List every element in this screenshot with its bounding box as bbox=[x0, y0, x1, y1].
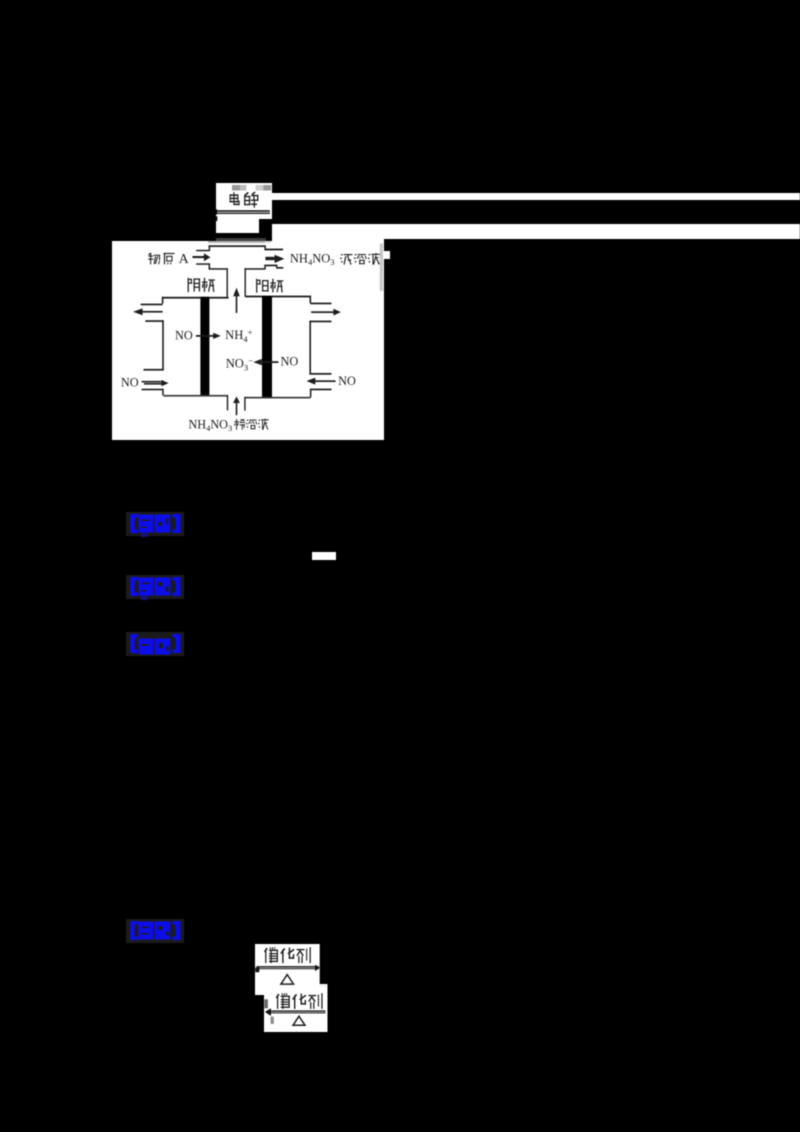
left wall below tube bbox=[209, 263, 211, 269]
label cathode yin-ji bbox=[188, 278, 200, 292]
svg-text:NO: NO bbox=[281, 354, 299, 368]
right wall upper bracket bbox=[309, 321, 331, 323]
right out-arrow bbox=[311, 311, 334, 313]
stack2 left arrowhead bbox=[265, 1008, 271, 1016]
stack2 delta bbox=[293, 1016, 305, 1025]
right tube lower edge joint bbox=[276, 265, 277, 268]
arrow to NH4NO3 concentrated solution bbox=[265, 257, 275, 260]
white notch right of diagram bbox=[383, 251, 390, 260]
svg-text:NO: NO bbox=[338, 374, 356, 388]
[fenxi] label backing patch bbox=[126, 632, 184, 656]
dianjie condition box bbox=[216, 183, 272, 233]
arrow NO to NO3- bbox=[262, 361, 279, 363]
left inlet tube lower edge bbox=[196, 263, 209, 265]
[zhuanti] label backing patch bbox=[126, 575, 184, 599]
right out-pipe upper line bbox=[310, 303, 331, 305]
left outer wall upper stub bbox=[162, 297, 164, 304]
stack1 background bbox=[255, 944, 320, 987]
arrow NO to NH4+ bbox=[196, 335, 214, 337]
neck left wall bbox=[209, 245, 211, 251]
vessel bottom edge left bbox=[163, 395, 227, 397]
left inlet tube upper edge bbox=[196, 250, 209, 252]
stack1 double line bbox=[256, 966, 319, 967]
right outlet tube upper edge bbox=[264, 249, 283, 251]
anode shelf line bbox=[245, 296, 310, 298]
left channel wall bbox=[227, 268, 228, 297]
left lower wall stub bbox=[162, 389, 164, 396]
reaction double line upper bbox=[216, 211, 269, 213]
cuihuaji stack 2 bbox=[264, 984, 328, 1032]
black notch over dianjie box lower-right bbox=[259, 219, 272, 233]
right NO inlet arrow bbox=[315, 380, 336, 382]
neck right wall bbox=[264, 245, 266, 249]
left NO inlet arrow bbox=[144, 383, 162, 385]
diagram right edge gray band bbox=[380, 244, 383, 292]
cell neck top line bbox=[209, 245, 265, 247]
cathode electrode bar bbox=[200, 297, 209, 396]
stack1 right arrowhead bbox=[315, 964, 320, 971]
right wall lower bracket bbox=[309, 373, 331, 375]
stack2 background bbox=[264, 985, 328, 1031]
svg-text:NO: NO bbox=[121, 376, 139, 390]
left NO inlet pipe lower bbox=[142, 389, 164, 391]
right outer wall upper stub bbox=[310, 296, 312, 303]
[kaodian] label backing patch bbox=[126, 512, 184, 536]
vessel bottom edge right bbox=[245, 397, 311, 399]
dark gray band below dianjie bbox=[216, 238, 266, 241]
svg-text:A: A bbox=[179, 252, 190, 267]
left wall lower bracket bbox=[144, 369, 164, 371]
right outlet tube lower edge bbox=[265, 265, 276, 267]
stack2 gray smudge lower bbox=[271, 1016, 274, 1023]
left wall upper bracket bbox=[145, 320, 163, 322]
left funnel shoulder bbox=[209, 268, 228, 270]
[fenxi] label blue text bbox=[128, 634, 183, 657]
label anode yang-ji bbox=[256, 279, 268, 293]
center up arrow bbox=[236, 295, 238, 314]
stack2 cuihuaji characters bbox=[276, 993, 290, 1009]
dianjie box background bbox=[216, 183, 272, 233]
bottom inlet right wall bbox=[244, 397, 245, 411]
[jieda] label blue text bbox=[128, 921, 183, 944]
light gray strip below dianjie bbox=[208, 241, 265, 243]
svg-text:NH4NO3: NH4NO3 bbox=[189, 418, 233, 434]
label wuzhiA bbox=[148, 253, 160, 265]
label NH4NO3 concentrated solution bbox=[290, 251, 335, 267]
right outer wall bbox=[309, 321, 311, 375]
left out-arrow bbox=[142, 311, 163, 313]
right funnel shoulder bbox=[244, 268, 265, 270]
white dash bbox=[312, 552, 336, 560]
electrolysis cell diagram bbox=[112, 241, 384, 440]
left out-pipe upper line bbox=[141, 304, 163, 306]
stack1 cuihuaji characters bbox=[264, 947, 278, 963]
white strip 1 bbox=[272, 193, 800, 200]
arrow wuzhiA into cell bbox=[193, 256, 205, 258]
left NO inlet pipe upper bbox=[142, 381, 162, 383]
stack2 gray smudge upper bbox=[264, 999, 268, 1008]
left outer wall bbox=[162, 320, 164, 370]
right lower wall stub bbox=[310, 389, 312, 398]
stack1 delta bbox=[281, 974, 294, 984]
gray artifact blocks top bbox=[232, 185, 240, 191]
svg-text:NH4NO3: NH4NO3 bbox=[290, 251, 335, 267]
right wall below tube bbox=[264, 265, 266, 270]
[jieda] label backing patch bbox=[126, 919, 184, 943]
right NO inlet pipe lower bbox=[310, 389, 331, 391]
white strip 2 bbox=[272, 224, 800, 239]
stack2 double line bbox=[267, 1010, 326, 1011]
cuihuaji stack 1 bbox=[255, 944, 320, 995]
left edge tick lower bbox=[216, 217, 217, 222]
right channel wall bbox=[245, 268, 246, 297]
diagram background bbox=[112, 241, 384, 440]
[zhuanti] label blue text bbox=[128, 577, 183, 600]
[kaodian] label blue text bbox=[128, 514, 183, 537]
cathode shelf line bbox=[162, 297, 229, 299]
white filler strip2 to diagram bbox=[272, 239, 384, 242]
reaction double line lower bbox=[216, 213, 270, 214]
anode electrode bar bbox=[262, 296, 272, 397]
bottom up arrow bbox=[236, 402, 238, 416]
stack1 left tail mark bbox=[255, 967, 259, 972]
left edge tick bbox=[216, 210, 217, 215]
dianjie characters bbox=[230, 192, 240, 205]
bottom inlet left wall bbox=[227, 395, 228, 411]
svg-text:NO: NO bbox=[175, 329, 193, 343]
